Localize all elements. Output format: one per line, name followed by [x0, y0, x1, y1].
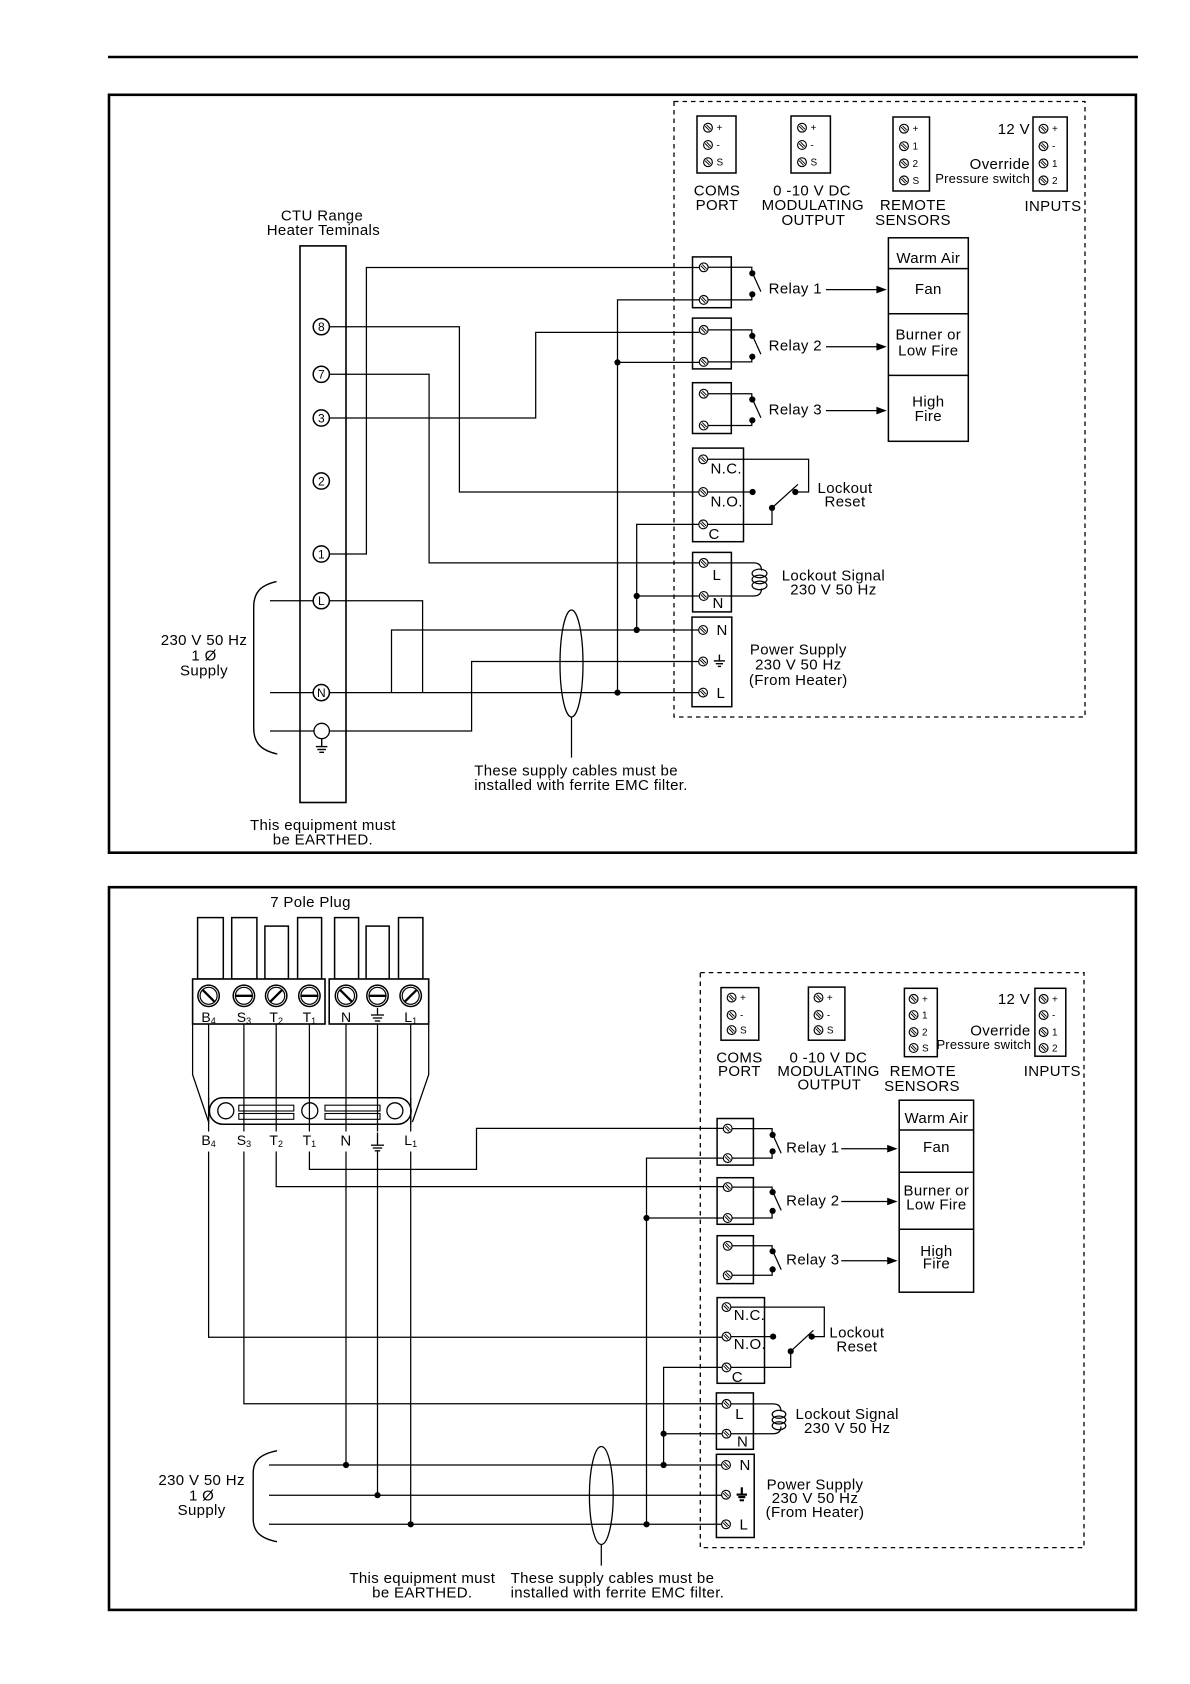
screw DC2 S — [814, 1026, 823, 1035]
svg-text:Relay 1: Relay 1 — [786, 1140, 839, 1157]
relay 2 terminal block — [693, 318, 732, 369]
relay 1 blade — [753, 275, 761, 292]
COMS PORT terminal block (bottom) — [721, 988, 759, 1041]
arrow relay1 to Fan — [826, 289, 879, 291]
ground symbol lower — [371, 1133, 384, 1151]
screw DC + — [798, 123, 807, 132]
clamp hole left — [218, 1103, 234, 1119]
svg-text:L: L — [717, 685, 726, 702]
relay 2 contact wires (bottom) — [732, 1187, 772, 1218]
wire L1 drop to supply line — [410, 1152, 412, 1525]
cable entry earth — [366, 926, 389, 979]
svg-text:Low Fire: Low Fire — [906, 1197, 966, 1214]
svg-text:(From Heater): (From Heater) — [749, 672, 848, 689]
junction N on supply line — [343, 1462, 349, 1468]
svg-text:+: + — [922, 994, 928, 1005]
screw N.C. (bottom) — [722, 1303, 731, 1312]
screw N — [335, 985, 356, 1006]
screw T2 — [266, 985, 287, 1006]
junction relay2 bottom (bottom) — [643, 1215, 649, 1221]
dashed controller outline (bottom diagram) — [700, 973, 1084, 1548]
svg-text:-: - — [1052, 142, 1055, 153]
screw INPUTS2 + — [1039, 995, 1048, 1004]
svg-text:2: 2 — [318, 474, 325, 488]
ground symbol power supply (bottom) — [737, 1487, 747, 1500]
wire terminal L riser — [329, 601, 423, 693]
screw REMOTE 2 — [900, 159, 909, 168]
relay 3 contact wires (bottom) — [732, 1246, 772, 1276]
cable entry T1 — [298, 918, 322, 979]
wire terminal3 to relay2 top — [329, 332, 699, 418]
svg-text:Fire: Fire — [915, 408, 942, 425]
svg-text:230 V 50 Hz: 230 V 50 Hz — [755, 656, 841, 673]
screw INPUTS 1 — [1039, 159, 1048, 168]
arrow relay2 to Burner — [826, 346, 879, 348]
svg-text:INPUTS: INPUTS — [1024, 1063, 1081, 1080]
svg-text:12 V: 12 V — [998, 991, 1030, 1008]
screw DC - — [798, 141, 807, 150]
wire N.C. to reset contact — [708, 459, 809, 492]
svg-text:be EARTHED.: be EARTHED. — [372, 1585, 472, 1602]
svg-text:N: N — [740, 1457, 751, 1474]
svg-text:1: 1 — [318, 547, 325, 561]
screw REMOTE S — [900, 176, 909, 185]
cable entry L1 — [399, 918, 423, 979]
coil wires (bottom) — [731, 1404, 781, 1434]
arrow relay3 to High Fire (bottom) — [841, 1260, 889, 1262]
clamp slots right — [325, 1105, 380, 1111]
svg-text:Pressure switch: Pressure switch — [936, 1037, 1031, 1052]
0-10V DC terminal block — [791, 116, 830, 173]
svg-text:Reset: Reset — [825, 494, 866, 511]
supply line earth (bottom) — [269, 1494, 722, 1496]
wire earth drop to supply line — [377, 1152, 379, 1496]
svg-text:N: N — [737, 1434, 748, 1451]
svg-text:-: - — [827, 1011, 830, 1022]
relay 3 screws (bottom) — [723, 1241, 732, 1250]
screw T1 — [299, 985, 320, 1006]
wire C to lockout N and power N — [637, 524, 700, 630]
relay 3 contacts — [749, 396, 755, 402]
relay 2 blade (bottom) — [774, 1193, 782, 1210]
relay 1 blade (bottom) — [774, 1136, 782, 1153]
svg-text:Relay 3: Relay 3 — [786, 1252, 839, 1269]
INPUTS terminal block (bottom) — [1035, 988, 1066, 1056]
wire T2 to relay2 top — [276, 1152, 723, 1187]
screw COMS2 S — [727, 1026, 736, 1035]
arrow relay3 to High Fire — [826, 410, 879, 412]
ferrite EMC filter ellipse (bottom) — [589, 1447, 613, 1545]
reset contact dots (bottom) — [770, 1334, 776, 1340]
wire N.O. to reset contact (bottom) — [731, 1336, 770, 1338]
svg-text:be EARTHED.: be EARTHED. — [273, 831, 373, 848]
cable entry N — [335, 918, 359, 979]
plug body taper left — [193, 1024, 209, 1122]
wire terminal1 to relay1 top — [329, 268, 699, 555]
svg-text:Reset: Reset — [836, 1338, 877, 1355]
coil loops (bottom) — [772, 1410, 786, 1418]
svg-text:Supply: Supply — [178, 1502, 226, 1519]
screw B4 — [198, 985, 219, 1006]
wire N drop to supply line — [345, 1152, 347, 1466]
svg-text:+: + — [913, 124, 919, 135]
clamp slots left — [239, 1105, 294, 1111]
junction commons on N line — [614, 690, 620, 696]
ferrite callout line — [571, 717, 573, 758]
wire N.O. to reset contact — [708, 491, 750, 493]
junction power N — [634, 627, 640, 633]
screw REMOTE2 2 — [909, 1028, 918, 1037]
svg-text:Heater Teminals: Heater Teminals — [267, 222, 380, 239]
junction relay2 bottom — [614, 359, 620, 365]
svg-text:3: 3 — [318, 411, 325, 425]
plug terminal block right — [329, 979, 429, 1024]
screw INPUTS - — [1039, 142, 1048, 151]
relay 3 contacts (bottom) — [770, 1248, 776, 1254]
relay 2 blade — [753, 337, 761, 354]
lockout signal terminal block — [693, 552, 732, 612]
terminal 7 — [313, 366, 329, 382]
svg-text:N: N — [717, 622, 728, 639]
screw lockout N (bottom) — [722, 1429, 731, 1438]
supply line L (bottom) — [269, 1523, 722, 1525]
terminal 8 — [313, 319, 329, 335]
svg-text:+: + — [827, 993, 833, 1004]
svg-text:1: 1 — [1052, 1028, 1058, 1039]
svg-text:2: 2 — [913, 159, 919, 170]
screw INPUTS2 2 — [1039, 1044, 1048, 1053]
svg-text:OUTPUT: OUTPUT — [798, 1077, 862, 1094]
wire earth drop — [377, 1024, 379, 1132]
svg-text:S: S — [827, 1026, 834, 1037]
svg-text:12 V: 12 V — [998, 121, 1030, 138]
reset blade (bottom) — [791, 1330, 814, 1351]
relay 1 contacts (bottom) — [770, 1132, 776, 1138]
cable clamp — [209, 1098, 411, 1125]
svg-text:INPUTS: INPUTS — [1024, 198, 1081, 215]
clamp hole mid — [302, 1103, 318, 1119]
screw power N — [699, 626, 708, 635]
wire T1 drop — [308, 1024, 310, 1132]
ferrite callout line (bottom) — [600, 1545, 602, 1566]
svg-text:Fire: Fire — [923, 1255, 950, 1272]
svg-text:230 V 50 Hz: 230 V 50 Hz — [804, 1420, 890, 1437]
svg-text:Fan: Fan — [915, 281, 942, 298]
screw earth — [367, 985, 388, 1006]
svg-text:+: + — [717, 123, 723, 134]
wire C to reset pivot (bottom) — [731, 1354, 791, 1367]
svg-text:Fan: Fan — [923, 1139, 950, 1156]
svg-text:7: 7 — [318, 368, 325, 382]
ground symbol under terminal — [316, 739, 328, 753]
screw C — [699, 520, 708, 529]
svg-text:C: C — [709, 526, 720, 543]
0-10V DC terminal block (bottom) — [808, 987, 845, 1040]
plug body taper right — [412, 1024, 428, 1122]
cable entry T2 — [265, 926, 289, 979]
terminal strip — [300, 246, 346, 803]
screw COMS - — [704, 141, 713, 150]
svg-text:N.C.: N.C. — [711, 461, 742, 478]
svg-text:+: + — [811, 123, 817, 134]
power supply terminal block — [692, 617, 732, 707]
power supply terminal block (bottom) — [716, 1454, 754, 1537]
terminal 2 — [313, 473, 329, 489]
screw power L (bottom) — [722, 1520, 731, 1529]
wire terminal8 to N.O. — [329, 327, 699, 492]
svg-text:Pressure switch: Pressure switch — [935, 171, 1030, 186]
wire N drop — [345, 1024, 347, 1132]
svg-text:-: - — [1052, 1011, 1055, 1022]
relay 1 contacts — [749, 270, 755, 276]
cable entry B4 — [198, 918, 224, 979]
screw C (bottom) — [722, 1363, 731, 1372]
screw power N (bottom) — [722, 1461, 731, 1470]
svg-text:SENSORS: SENSORS — [875, 212, 951, 229]
relay 2 contacts (bottom) — [770, 1189, 776, 1195]
svg-text:-: - — [717, 141, 720, 152]
wire supply earth stub — [270, 730, 314, 732]
svg-text:C: C — [732, 1369, 743, 1386]
relay 3 terminal block — [693, 383, 732, 434]
relay 2 terminal block (bottom) — [717, 1178, 753, 1225]
wire T1 to relay1 top — [309, 1128, 723, 1169]
terminal L — [313, 593, 329, 609]
svg-text:Supply: Supply — [180, 663, 228, 680]
svg-text:Warm Air: Warm Air — [896, 250, 960, 267]
function box column — [888, 238, 968, 441]
relay 1 screws (bottom) — [723, 1124, 732, 1133]
screw REMOTE2 S — [909, 1044, 918, 1053]
svg-text:Burner or: Burner or — [895, 327, 961, 344]
svg-text:S: S — [740, 1026, 747, 1037]
screw COMS + — [704, 123, 713, 132]
screw lockout N — [699, 592, 708, 601]
relay 2 screws (bottom) — [723, 1183, 732, 1192]
svg-text:(From Heater): (From Heater) — [766, 1504, 865, 1521]
relay 3 blade — [753, 401, 761, 418]
svg-text:N: N — [317, 686, 326, 700]
reset contact dots — [750, 489, 756, 495]
junction earth on supply line — [374, 1492, 380, 1498]
svg-text:+: + — [1052, 124, 1058, 135]
clamp hole right — [387, 1103, 403, 1119]
svg-text:Relay 1: Relay 1 — [769, 281, 822, 298]
svg-text:1: 1 — [922, 1011, 928, 1022]
svg-text:N: N — [713, 595, 724, 612]
svg-text:Relay 2: Relay 2 — [786, 1192, 839, 1209]
svg-text:1: 1 — [913, 142, 919, 153]
svg-text:N.O.: N.O. — [734, 1336, 766, 1353]
svg-text:Warm Air: Warm Air — [904, 1110, 968, 1127]
junction L1 on supply line — [408, 1521, 414, 1527]
screw REMOTE 1 — [900, 142, 909, 151]
wire N.C. to reset contact (bottom) — [731, 1307, 824, 1337]
wire S3 to lockout L — [244, 1152, 722, 1404]
wire terminal7 to lockout L — [329, 374, 699, 563]
screw N.C. — [699, 455, 708, 464]
svg-text:installed with ferrite EMC fil: installed with ferrite EMC filter. — [474, 777, 688, 794]
screw REMOTE2 + — [909, 995, 918, 1004]
coil wires — [708, 563, 761, 596]
relay 3 blade (bottom) — [774, 1253, 782, 1270]
junction lockout N — [634, 593, 640, 599]
svg-text:+: + — [740, 993, 746, 1004]
terminal N — [313, 685, 329, 701]
svg-text:-: - — [811, 141, 814, 152]
screw INPUTS2 - — [1039, 1011, 1048, 1020]
lockout signal terminal block (bottom) — [716, 1393, 753, 1449]
svg-text:L: L — [740, 1517, 749, 1534]
screw lockout L (bottom) — [722, 1400, 731, 1409]
screw DC S — [798, 158, 807, 167]
junction commons on supply L (bottom) — [643, 1521, 649, 1527]
relay 1 terminal block (bottom) — [717, 1119, 753, 1166]
svg-text:Relay 3: Relay 3 — [769, 402, 822, 419]
screw N.O. — [699, 488, 708, 497]
svg-text:OUTPUT: OUTPUT — [782, 212, 846, 229]
relay 1 contact wires — [708, 267, 752, 300]
terminal 3 — [313, 410, 329, 426]
screw S3 — [233, 985, 254, 1006]
junction supply N (bottom) — [661, 1462, 667, 1468]
wire relay commons vertical — [618, 300, 700, 693]
relay 3 contact wires — [708, 394, 752, 426]
svg-text:S: S — [913, 176, 920, 187]
svg-text:8: 8 — [318, 320, 325, 334]
svg-text:2: 2 — [1052, 1044, 1058, 1055]
screw DC2 + — [814, 993, 823, 1002]
svg-text:2: 2 — [1052, 176, 1058, 187]
svg-text:S: S — [922, 1044, 929, 1055]
wire S3 drop — [243, 1024, 245, 1132]
wire power supply earth to terminal earth — [329, 662, 698, 732]
REMOTE SENSORS terminal block (bottom) — [904, 988, 937, 1056]
svg-text:230 V 50 Hz: 230 V 50 Hz — [790, 581, 876, 598]
coil loops — [752, 569, 767, 578]
junction lockout N (bottom) — [661, 1431, 667, 1437]
SECTION: top diagram frame — [109, 95, 1136, 853]
screw INPUTS2 1 — [1039, 1028, 1048, 1037]
screw N.O. (bottom) — [722, 1332, 731, 1341]
screw L1 — [400, 985, 421, 1006]
wire C to lockout N and supply N (bottom) — [664, 1367, 723, 1465]
arrow relay1 to Fan (bottom) — [841, 1148, 889, 1150]
terminal earth circle — [314, 723, 329, 738]
svg-text:PORT: PORT — [696, 197, 739, 214]
screw COMS S — [704, 158, 713, 167]
wire T2 drop — [275, 1024, 277, 1132]
wire supply L stub — [270, 600, 314, 602]
svg-text:SENSORS: SENSORS — [884, 1078, 960, 1095]
screw lockout L — [699, 559, 708, 568]
wire B4 to N.O. — [209, 1152, 723, 1338]
ground symbol power supply — [714, 655, 725, 667]
svg-text:+: + — [1052, 994, 1058, 1005]
svg-text:2: 2 — [922, 1028, 928, 1039]
svg-text:S: S — [811, 158, 818, 169]
supply brace — [254, 582, 278, 754]
svg-text:7 Pole Plug: 7 Pole Plug — [270, 894, 351, 911]
relay 1 contact wires (bottom) — [732, 1129, 772, 1159]
terminal 1 — [313, 546, 329, 562]
screw REMOTE + — [900, 124, 909, 133]
svg-text:N: N — [340, 1133, 351, 1150]
svg-text:installed with ferrite EMC fil: installed with ferrite EMC filter. — [511, 1585, 725, 1602]
svg-text:N.O.: N.O. — [711, 493, 743, 510]
svg-text:Low Fire: Low Fire — [898, 342, 958, 359]
cable entry S3 — [232, 918, 257, 979]
wire B4 drop — [208, 1024, 210, 1132]
function box column (bottom) — [899, 1100, 973, 1292]
wire relay commons vertical (bottom) — [647, 1158, 724, 1524]
wire L1 drop — [410, 1024, 412, 1132]
relay 3 terminal block (bottom) — [717, 1236, 753, 1284]
wire C to reset pivot — [708, 511, 772, 525]
svg-text:S: S — [717, 158, 724, 169]
svg-text:-: - — [740, 1011, 743, 1022]
INPUTS terminal block — [1033, 117, 1067, 191]
lockout reset terminal block — [693, 448, 744, 542]
screw COMS2 + — [727, 993, 736, 1002]
dashed controller outline (top diagram) — [674, 102, 1085, 718]
relay 3 screws — [699, 389, 708, 398]
header rule — [108, 56, 1138, 59]
supply brace (bottom) — [253, 1451, 277, 1542]
relay 1 terminal block — [693, 257, 732, 308]
relay 2 screws — [699, 326, 708, 335]
plug terminal block left — [193, 979, 325, 1024]
COMS PORT terminal block — [697, 116, 736, 173]
svg-text:230 V 50 Hz: 230 V 50 Hz — [161, 632, 247, 649]
svg-text:L: L — [735, 1406, 744, 1423]
wire power supply N to terminal N — [392, 630, 699, 693]
supply line N (bottom) — [269, 1464, 722, 1466]
screw COMS2 - — [727, 1011, 736, 1020]
reset blade — [772, 484, 798, 508]
svg-text:L: L — [713, 567, 722, 584]
REMOTE SENSORS terminal block — [893, 117, 930, 191]
svg-text:L: L — [318, 594, 325, 608]
wire N row to power supply L — [270, 692, 699, 694]
arrow relay2 to Burner (bottom) — [841, 1201, 889, 1203]
wire stubs through clamp — [208, 1098, 210, 1125]
svg-text:PORT: PORT — [718, 1063, 761, 1080]
screw power L — [699, 688, 708, 697]
svg-text:N.C.: N.C. — [734, 1307, 765, 1324]
svg-text:Relay 2: Relay 2 — [769, 338, 822, 355]
relay 2 contacts — [749, 333, 755, 339]
screw DC2 - — [814, 1011, 823, 1020]
screw REMOTE2 1 — [909, 1011, 918, 1020]
ferrite EMC filter ellipse — [560, 610, 583, 717]
svg-text:N: N — [341, 1009, 351, 1025]
screw power earth — [699, 657, 708, 666]
relay 2 contact wires — [708, 330, 752, 362]
svg-text:1: 1 — [1052, 159, 1058, 170]
screw INPUTS 2 — [1039, 176, 1048, 185]
SECTION: bottom diagram frame — [109, 887, 1136, 1610]
lockout reset terminal block (bottom) — [717, 1298, 764, 1384]
ground symbol plug block — [371, 1008, 384, 1021]
screw INPUTS + — [1039, 124, 1048, 133]
screw power earth (bottom) — [722, 1490, 731, 1499]
relay 1 screws — [699, 263, 708, 272]
